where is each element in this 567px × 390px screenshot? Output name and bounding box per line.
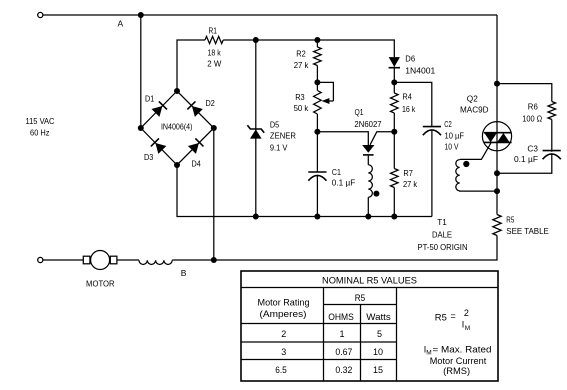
svg-text:R7: R7 xyxy=(403,168,413,178)
table header separator xyxy=(241,287,498,289)
diode D6 xyxy=(389,57,400,68)
table: NOMINAL R5 VALUES outer box xyxy=(241,271,498,381)
svg-text:C2: C2 xyxy=(444,119,452,129)
wire: Q1 gate to R4/R7 node xyxy=(370,132,394,145)
T1 primary phasing dot xyxy=(373,191,379,197)
svg-text:=: = xyxy=(451,311,456,321)
svg-text:C1: C1 xyxy=(332,167,341,177)
wire: top rail from input terminal to Q2 branch xyxy=(42,14,497,16)
node: junction R4/R7/Q1 gate xyxy=(391,129,397,135)
wire: Q2 MT1 down to R5 xyxy=(496,151,498,215)
svg-text:27 k: 27 k xyxy=(294,60,309,70)
wire: R6 to C3 xyxy=(551,120,553,152)
wiper arrow of potentiometer R3 xyxy=(328,100,333,102)
svg-text:B: B xyxy=(181,268,187,278)
resistor R7 xyxy=(390,169,398,188)
svg-text:A: A xyxy=(118,19,124,29)
node: rail junction R7 xyxy=(391,214,397,220)
svg-text:MAC9D: MAC9D xyxy=(460,104,489,114)
svg-text:IN4006(4): IN4006(4) xyxy=(161,123,193,132)
wire: R5 to bottom AC line xyxy=(214,236,497,261)
svg-text:18 k: 18 k xyxy=(208,48,222,58)
transistor Q1 (2N6027 PUT) xyxy=(362,145,374,155)
wire: Q2 gate to T1 secondary xyxy=(460,143,491,160)
svg-text:= Max. Rated: = Max. Rated xyxy=(433,345,492,355)
wire: R7 to rail xyxy=(393,188,395,217)
wire: Q1 cathode to T1 primary xyxy=(367,156,369,165)
svg-text:60 Hz: 60 Hz xyxy=(30,128,50,138)
wire: C1 bottom to rail xyxy=(316,176,318,217)
wire: bottom terminal to motor xyxy=(42,259,83,261)
table row borders xyxy=(241,324,397,360)
svg-text:R4: R4 xyxy=(402,92,412,102)
svg-text:10 µF: 10 µF xyxy=(445,130,465,140)
svg-text:(Amperes): (Amperes) xyxy=(260,309,307,319)
node: bridge right vertex (AC) xyxy=(211,125,217,131)
resistor R5 xyxy=(493,215,501,236)
wire: bridge DC+ up and right to R1 xyxy=(177,40,205,91)
table R5 sub-header separator xyxy=(324,304,397,306)
wire: main line into Q2 MT2 xyxy=(496,15,498,122)
node A xyxy=(138,12,144,18)
node: bridge top vertex (DC+) xyxy=(174,88,180,94)
wire: R2/R3 branch vertical segments xyxy=(316,40,318,172)
capacitor C1 xyxy=(308,171,326,173)
wire: bridge diamond edges xyxy=(141,91,214,165)
inductor: series choke in motor line xyxy=(139,260,172,264)
wire: C2 bottom to rail corner xyxy=(431,130,433,217)
wire: node A down to bridge left vertex xyxy=(140,15,142,128)
svg-text:0.1 µF: 0.1 µF xyxy=(332,178,356,188)
svg-text:27 k: 27 k xyxy=(403,179,418,189)
svg-text:10: 10 xyxy=(373,347,383,357)
wire: Q1 anode from R3/C1 node xyxy=(317,132,368,145)
wire: T1 secondary bottom to Q2 MT1 line xyxy=(460,190,497,192)
svg-text:10 V: 10 V xyxy=(445,142,459,152)
svg-text:5: 5 xyxy=(377,329,382,339)
svg-text:PT-50 ORIGIN: PT-50 ORIGIN xyxy=(418,242,468,252)
svg-text:Q2: Q2 xyxy=(467,94,478,104)
label: formula R5 = 2 / IM xyxy=(435,308,470,332)
svg-text:115 VAC: 115 VAC xyxy=(26,116,55,126)
svg-text:2N6027: 2N6027 xyxy=(354,119,381,129)
svg-text:16 k: 16 k xyxy=(402,104,416,114)
node: junction R2/R3/wiper xyxy=(314,79,320,85)
resistor R2 xyxy=(314,47,322,65)
node: junction R3/C1/Q1 anode xyxy=(314,129,320,135)
svg-text:D4: D4 xyxy=(192,158,202,168)
wire: R1 to D6 branch corner xyxy=(223,40,394,57)
wire: motor to series inductor xyxy=(117,259,139,261)
svg-text:C3: C3 xyxy=(527,143,538,153)
svg-text:0.32: 0.32 xyxy=(335,365,352,375)
svg-text:6.5: 6.5 xyxy=(275,365,287,375)
wire: D6 to R4 xyxy=(393,67,395,93)
svg-text:DALE: DALE xyxy=(432,229,452,239)
capacitor C2 xyxy=(423,126,441,128)
svg-text:100 Ω: 100 Ω xyxy=(522,114,542,124)
T1 secondary phasing dot xyxy=(463,161,469,167)
wire: zener branch vertical xyxy=(255,40,257,217)
svg-text:50 k: 50 k xyxy=(294,103,309,113)
svg-text:MOTOR: MOTOR xyxy=(86,278,115,288)
node: rail junction zener xyxy=(253,214,259,220)
node: junction R2 branch xyxy=(314,37,320,43)
svg-text:2: 2 xyxy=(281,329,286,339)
wire: C2 branch from D6/R4 node xyxy=(394,82,432,126)
capacitor C3 xyxy=(543,150,561,152)
resistor R6 xyxy=(548,102,556,120)
terminal: top AC input xyxy=(38,12,43,17)
motor (armature with brushes) xyxy=(83,251,117,270)
svg-text:OHMS: OHMS xyxy=(328,312,354,322)
svg-text:1: 1 xyxy=(339,329,344,339)
node: junction R6 snubber branch xyxy=(494,81,500,87)
zener diode D5 xyxy=(247,125,264,138)
svg-text:2: 2 xyxy=(464,308,469,318)
svg-text:R5: R5 xyxy=(506,215,514,225)
triac Q2 (MAC9D) xyxy=(482,122,511,151)
svg-text:1N4001: 1N4001 xyxy=(405,66,435,76)
wire: T1 primary bottom to rail xyxy=(367,197,369,216)
svg-text:0.67: 0.67 xyxy=(335,347,352,357)
wire: R3 wiper loop xyxy=(317,82,333,101)
wire: C3 to MT1 node xyxy=(497,154,552,173)
inductor: T1 primary winding xyxy=(368,165,372,197)
svg-text:3: 3 xyxy=(281,347,286,357)
svg-text:D5: D5 xyxy=(270,120,280,130)
svg-text:2 W: 2 W xyxy=(207,59,221,69)
svg-text:R5: R5 xyxy=(435,313,447,323)
node B xyxy=(211,257,217,263)
svg-text:D2: D2 xyxy=(206,98,216,108)
svg-text:M: M xyxy=(465,325,470,332)
svg-text:Watts: Watts xyxy=(366,312,391,322)
svg-text:0.1 µF: 0.1 µF xyxy=(514,154,538,164)
node: junction R1 output / zener branch xyxy=(253,37,259,43)
diode D3 (bridge, DC- to left AC) xyxy=(151,138,167,154)
label: IM = Max. Rated xyxy=(424,345,492,357)
resistor R4 xyxy=(390,93,398,113)
node: rail junction T1 primary xyxy=(365,214,371,220)
resistor R1 xyxy=(205,36,223,43)
wire: R4 to R7 xyxy=(393,113,395,169)
table column dividers xyxy=(324,288,397,382)
svg-text:9.1 V: 9.1 V xyxy=(270,142,288,152)
node: junction secondary return / MT1 xyxy=(494,188,500,194)
svg-text:15: 15 xyxy=(373,365,383,375)
svg-text:T1: T1 xyxy=(437,217,447,227)
node: bridge left vertex (AC) xyxy=(138,125,144,131)
svg-text:R6: R6 xyxy=(528,102,538,112)
svg-text:(RMS): (RMS) xyxy=(443,366,470,376)
inductor: T1 secondary winding xyxy=(456,160,460,191)
terminal: bottom AC input xyxy=(38,257,43,262)
wire: DC negative rail (bridge bottom to C2 bottom) xyxy=(177,165,432,217)
wire: snubber branch top xyxy=(497,84,552,102)
svg-text:NOMINAL R5 VALUES: NOMINAL R5 VALUES xyxy=(322,276,417,286)
diode D1 (bridge, left AC to DC+) xyxy=(151,101,167,117)
svg-text:D6: D6 xyxy=(405,53,415,63)
svg-text:Motor Current: Motor Current xyxy=(430,356,487,366)
node: junction snubber return xyxy=(494,170,500,176)
svg-text:R5: R5 xyxy=(355,293,365,303)
svg-text:R3: R3 xyxy=(295,92,305,102)
diode D2 (bridge, right AC to DC+) xyxy=(187,101,203,117)
svg-text:ZENER: ZENER xyxy=(270,130,296,140)
wire: inductor to node B xyxy=(172,259,214,261)
potentiometer R3 xyxy=(314,91,322,114)
node: rail junction C1 xyxy=(314,214,320,220)
svg-text:SEE TABLE: SEE TABLE xyxy=(506,226,549,236)
svg-text:Motor Rating: Motor Rating xyxy=(258,298,310,308)
svg-text:D1: D1 xyxy=(145,94,155,104)
node: bridge bottom vertex (DC-) xyxy=(174,162,180,168)
svg-text:R2: R2 xyxy=(296,49,306,59)
diode D4 (bridge, DC- to right AC) xyxy=(188,138,204,154)
svg-text:D3: D3 xyxy=(144,152,154,162)
svg-text:Q1: Q1 xyxy=(355,107,364,117)
wire: bridge right vertex down to node B (crosses rail) xyxy=(213,128,215,260)
svg-text:R1: R1 xyxy=(209,26,218,36)
node: junction D6/R4/C2 xyxy=(391,79,397,85)
